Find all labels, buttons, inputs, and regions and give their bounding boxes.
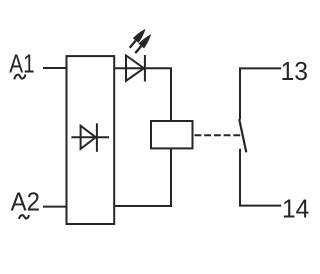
module body rectangle — [67, 56, 115, 224]
svg-text:A1: A1 — [9, 49, 34, 79]
diode D1 triangle — [81, 126, 96, 149]
wire terminal 13 vertical to contact — [239, 67, 241, 119]
wire terminal 14 horizontal — [239, 205, 281, 207]
LED emission arrow 1 — [127, 27, 148, 50]
relay coil K1 — [151, 121, 193, 148]
dashed mechanical link coil to contact — [195, 134, 244, 136]
LED emission arrow 2 — [133, 32, 154, 55]
LED triangle — [126, 56, 144, 81]
wire A1 to module — [43, 67, 67, 69]
wire terminal 13 horizontal — [239, 67, 281, 69]
diode D1 anode-cathode line — [71, 136, 109, 138]
wire A2 to module — [43, 206, 67, 208]
wire contact to terminal 14 vertical — [239, 149, 241, 207]
svg-text:13: 13 — [281, 56, 309, 86]
AC symbol under A2 — [19, 215, 29, 219]
wire node down to relay coil — [170, 68, 172, 121]
wire module to LED and node — [114, 67, 172, 69]
svg-text:A2: A2 — [11, 187, 40, 217]
contact blade (NO contact) — [239, 119, 246, 152]
wire relay coil down to bottom wire — [170, 148, 172, 207]
diode D1 cathode bar — [96, 123, 98, 152]
bottom wire module to coil branch — [114, 205, 172, 207]
LED cathode bar — [144, 55, 146, 82]
svg-text:14: 14 — [282, 193, 309, 223]
AC symbol under A1 — [14, 74, 25, 79]
